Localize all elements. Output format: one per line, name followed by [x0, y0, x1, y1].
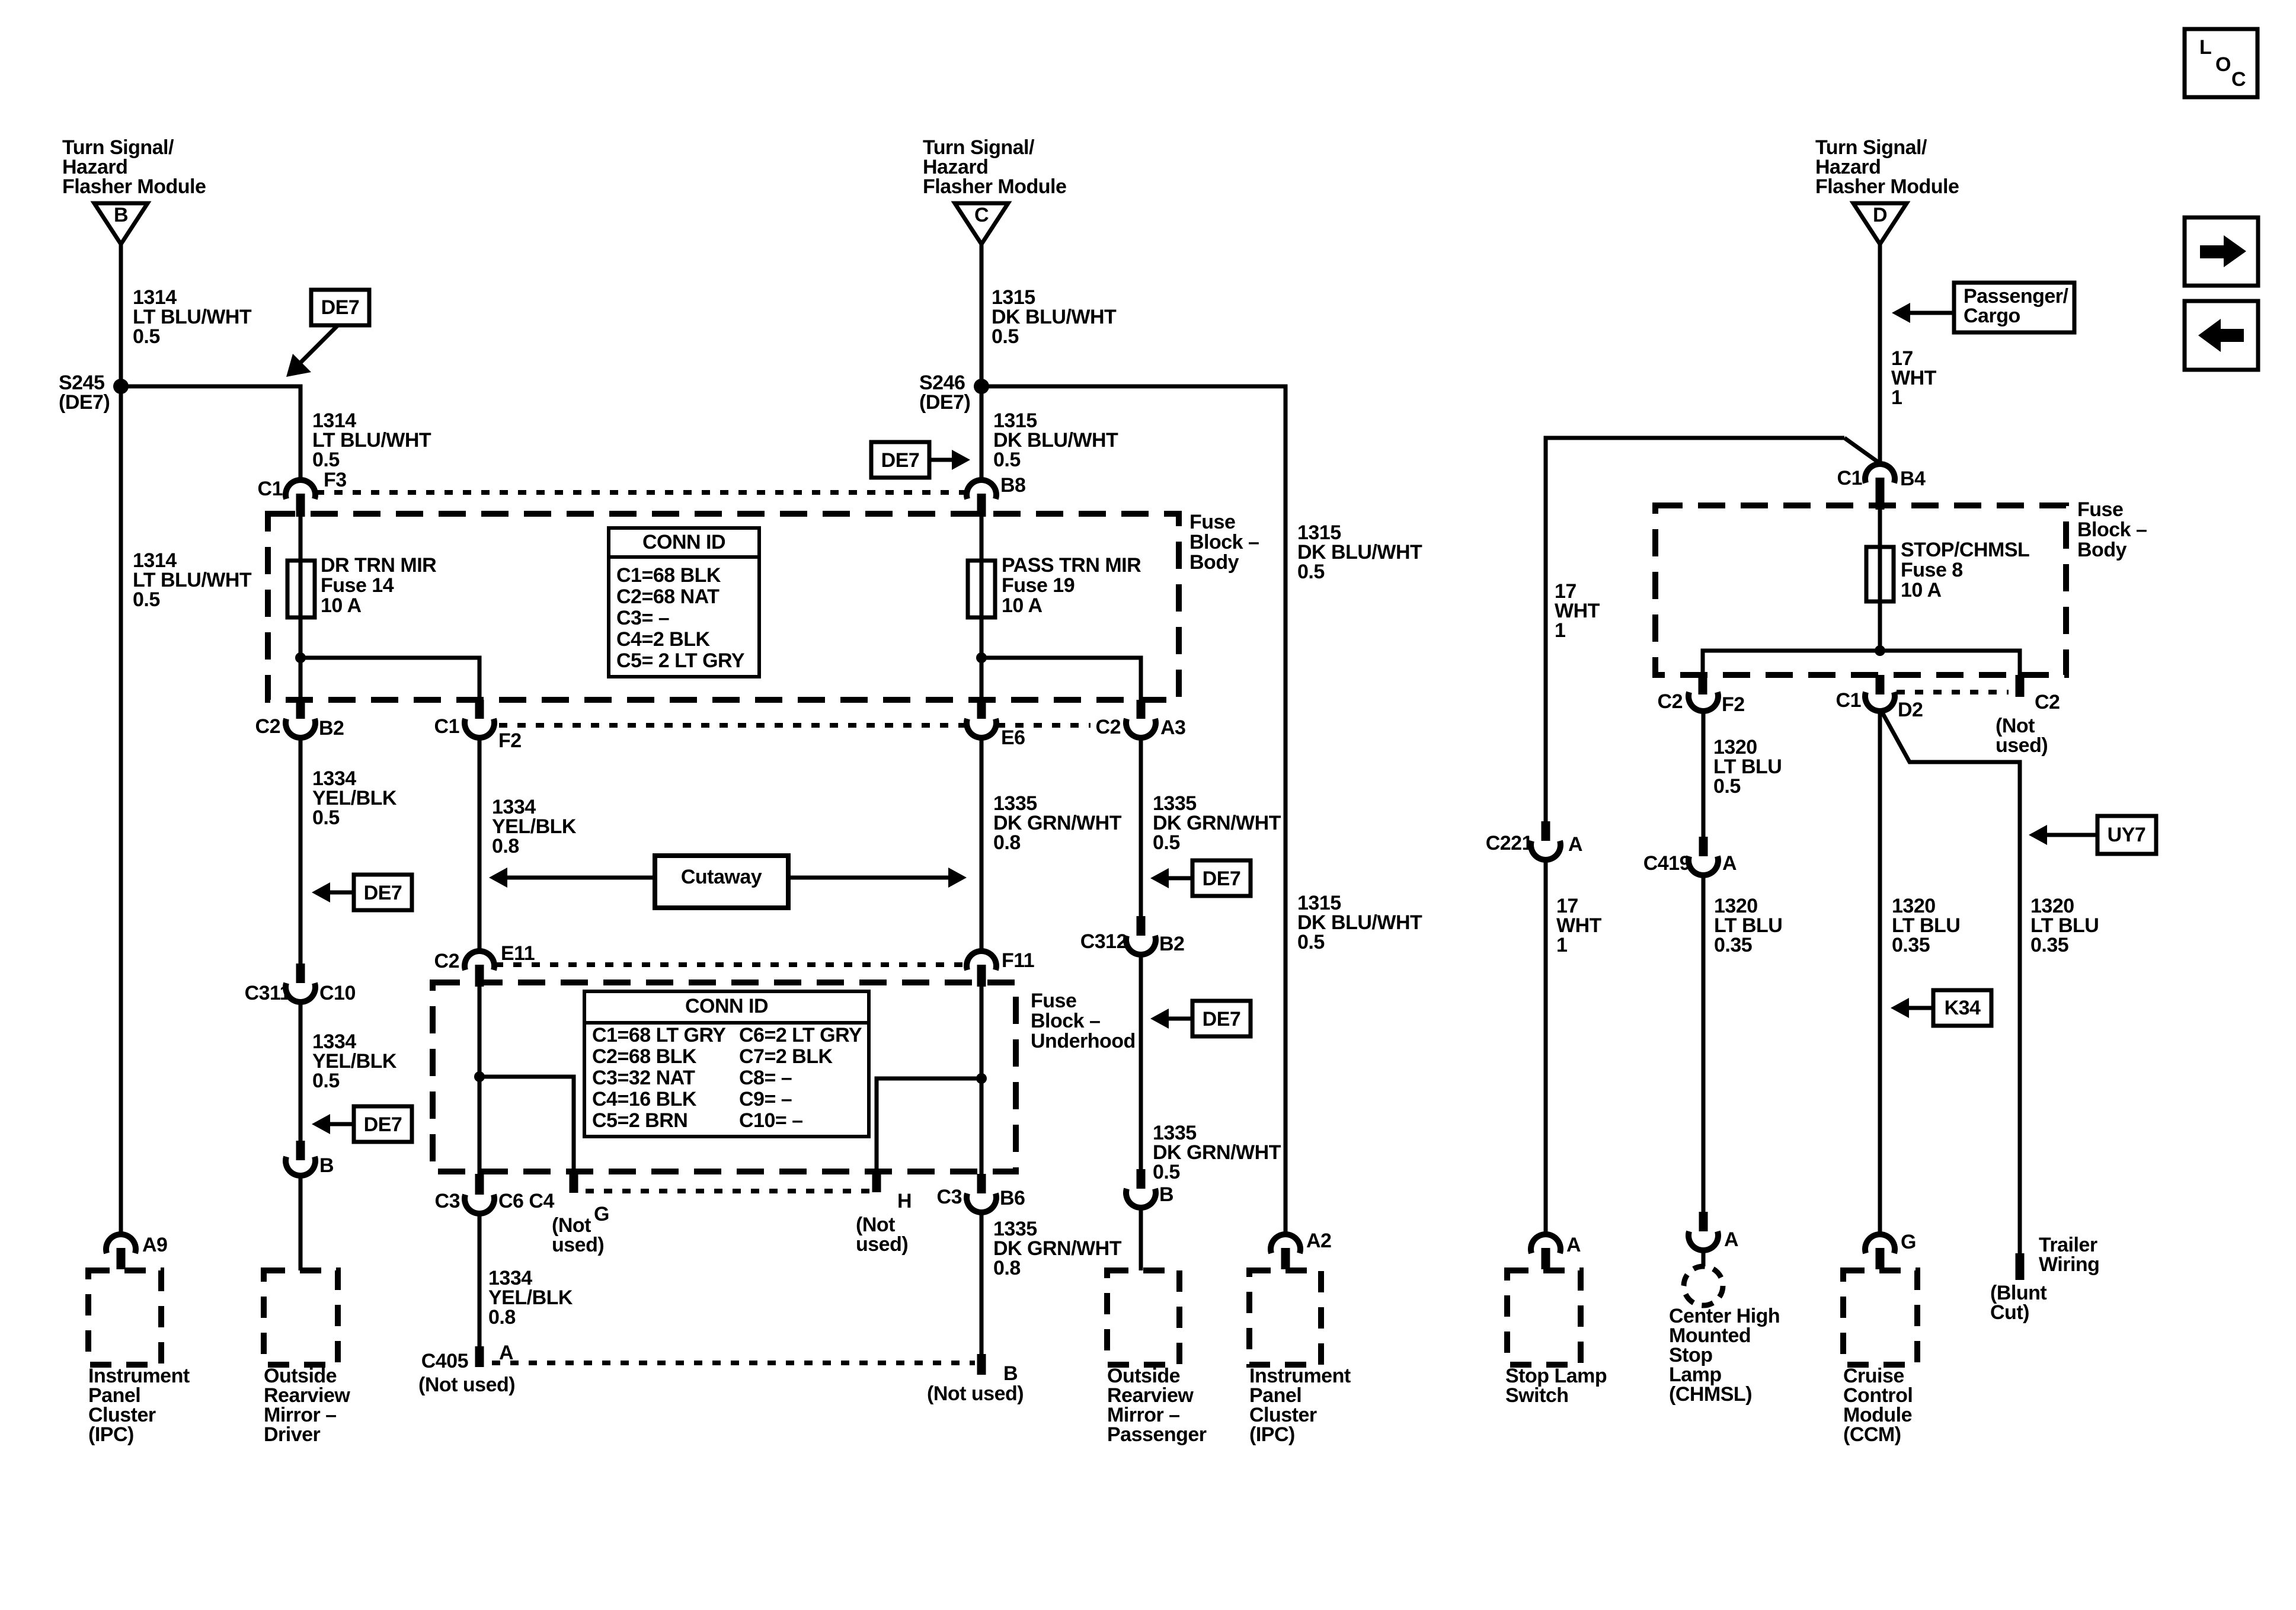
- svg-text:0.8: 0.8: [492, 835, 519, 857]
- wire 1335 E6 to F11: [980, 738, 984, 949]
- svg-text:0.5: 0.5: [312, 806, 340, 829]
- svg-text:A: A: [1568, 833, 1582, 856]
- svg-text:used): used): [856, 1233, 908, 1256]
- callout DE7 (to wire 1335 upper): [1192, 860, 1251, 896]
- connector B (passenger mirror): [1137, 1169, 1146, 1189]
- svg-text:Flasher Module: Flasher Module: [62, 175, 206, 198]
- svg-text:Cargo: Cargo: [1964, 305, 2020, 327]
- stop lamp switch box: [1507, 1270, 1581, 1365]
- LOC legend box: [2185, 29, 2257, 97]
- wire 1335 B6 to B stub: [980, 1213, 984, 1354]
- wire F11 through underhood block: [980, 987, 984, 1184]
- svg-text:G: G: [1901, 1231, 1916, 1253]
- svg-text:G: G: [594, 1203, 609, 1225]
- svg-text:C4=16 BLK: C4=16 BLK: [592, 1088, 697, 1110]
- svg-text:0.35: 0.35: [1892, 934, 1930, 956]
- svg-text:0.35: 0.35: [1714, 934, 1752, 956]
- connector B (driver mirror): [296, 1141, 305, 1160]
- connector C221 / A: [1542, 821, 1550, 841]
- svg-text:A: A: [1722, 852, 1737, 875]
- svg-text:F3: F3: [324, 469, 347, 491]
- svg-text:C312: C312: [1080, 930, 1127, 953]
- svg-text:(IPC): (IPC): [1249, 1423, 1295, 1446]
- connector dotted line (C2 row): [499, 723, 966, 728]
- svg-text:used): used): [552, 1234, 604, 1256]
- instrument panel cluster box (right): [1249, 1270, 1321, 1365]
- svg-text:Underhood: Underhood: [1031, 1030, 1136, 1052]
- svg-text:C2=68 NAT: C2=68 NAT: [616, 585, 720, 608]
- svg-text:L: L: [2199, 36, 2211, 59]
- svg-text:C4=2 BLK: C4=2 BLK: [616, 628, 710, 651]
- svg-text:C3: C3: [435, 1190, 460, 1212]
- svg-text:CONN ID: CONN ID: [642, 531, 725, 553]
- pin H stub (not used): [872, 1172, 881, 1192]
- svg-text:D: D: [1873, 204, 1887, 226]
- junction at fuse 19 output: [976, 652, 987, 663]
- connector C1 / F2: [475, 700, 484, 719]
- svg-text:1: 1: [1555, 619, 1565, 642]
- svg-text:Flasher Module: Flasher Module: [923, 175, 1066, 198]
- wire E11 through underhood block: [478, 987, 482, 1184]
- wire trailer branch from D2: [1881, 710, 2020, 1253]
- svg-text:0.35: 0.35: [2030, 934, 2068, 956]
- connector C1 / F3 at fuse block body: [286, 480, 315, 499]
- wire stop lamp top branch: [1546, 438, 1844, 821]
- svg-text:K34: K34: [1945, 997, 1981, 1019]
- svg-text:Cutaway: Cutaway: [681, 866, 762, 888]
- svg-text:A: A: [1724, 1228, 1738, 1251]
- svg-text:F2: F2: [1722, 693, 1745, 716]
- connector B8 at fuse block body: [967, 480, 996, 499]
- cruise control module box: [1843, 1270, 1917, 1365]
- left turn arrow legend: [2185, 301, 2258, 370]
- wire diagonal into C1/B4: [1844, 438, 1880, 463]
- svg-text:C311: C311: [245, 982, 290, 1004]
- svg-text:E6: E6: [1001, 726, 1025, 749]
- svg-text:C: C: [2231, 68, 2246, 91]
- pin B stub (not used): [977, 1354, 986, 1375]
- pin C2 stub (not used, right block): [2016, 675, 2025, 697]
- connector A2: [1271, 1234, 1300, 1253]
- connector E6: [977, 700, 986, 719]
- module C triangle connector: [955, 203, 1008, 244]
- connector C1 / D2: [1876, 675, 1885, 694]
- svg-text:STOP/CHMSL: STOP/CHMSL: [1901, 539, 2029, 561]
- cutaway box with arrows: [505, 876, 655, 880]
- svg-text:Cut): Cut): [1990, 1301, 2029, 1324]
- svg-text:PASS TRN MIR: PASS TRN MIR: [1002, 554, 1141, 577]
- svg-text:Passenger: Passenger: [1107, 1423, 1207, 1446]
- svg-text:0.8: 0.8: [993, 831, 1021, 854]
- wire fuse 19 branch to A3 pin: [981, 658, 1141, 700]
- callout UY7: [2097, 816, 2156, 854]
- connector dotted line (G/H row): [586, 1189, 871, 1193]
- svg-text:A3: A3: [1160, 716, 1185, 739]
- svg-text:(Not used): (Not used): [927, 1382, 1024, 1405]
- svg-text:(IPC): (IPC): [88, 1423, 134, 1446]
- fuse block - body dashed box (right): [1655, 505, 2066, 675]
- svg-text:Body: Body: [1189, 551, 1239, 574]
- svg-text:B2: B2: [319, 717, 344, 740]
- wire 1314 from module B to splice S245: [119, 244, 123, 386]
- wire branch S246 to IPC A2: [981, 386, 1285, 1234]
- callout Passenger/Cargo: [1954, 283, 2074, 332]
- svg-text:UY7: UY7: [2108, 824, 2146, 846]
- wire fuse 14 branch to F2 pin: [300, 658, 479, 700]
- svg-text:B: B: [1003, 1362, 1018, 1385]
- svg-text:B: B: [1159, 1183, 1173, 1206]
- svg-text:Fuse 19: Fuse 19: [1002, 574, 1075, 597]
- junction underhood (left): [474, 1071, 485, 1082]
- wire 1334 C311 to B: [299, 1003, 303, 1141]
- svg-text:A9: A9: [142, 1234, 167, 1256]
- pin C405 A stub (not used): [475, 1346, 484, 1367]
- svg-text:(CHMSL): (CHMSL): [1669, 1383, 1752, 1406]
- svg-text:F2: F2: [498, 729, 522, 752]
- svg-text:Driver: Driver: [264, 1423, 321, 1446]
- fuse DR TRN MIR Fuse 14 10 A: [299, 517, 303, 658]
- svg-text:10 A: 10 A: [1901, 579, 1942, 601]
- svg-text:0.8: 0.8: [488, 1306, 516, 1329]
- svg-text:0.5: 0.5: [133, 325, 160, 348]
- wire 17 WHT from module D: [1878, 244, 1882, 463]
- svg-text:C: C: [974, 204, 989, 226]
- svg-text:10 A: 10 A: [321, 594, 362, 617]
- svg-text:C2=68 BLK: C2=68 BLK: [592, 1045, 697, 1068]
- svg-text:Fuse: Fuse: [2077, 498, 2123, 521]
- svg-text:C221: C221: [1486, 832, 1533, 854]
- svg-text:C2: C2: [2035, 691, 2060, 713]
- wire 1335 C312 to B: [1139, 955, 1143, 1169]
- svg-text:0.5: 0.5: [1297, 561, 1325, 583]
- svg-text:Block –: Block –: [1189, 531, 1259, 553]
- trailer wiring blunt cut stub: [2016, 1253, 2025, 1280]
- svg-text:1: 1: [1891, 386, 1902, 409]
- svg-text:C2: C2: [1096, 716, 1121, 738]
- svg-text:O: O: [2215, 53, 2231, 76]
- svg-text:Fuse: Fuse: [1189, 511, 1235, 533]
- svg-text:0.5: 0.5: [992, 325, 1019, 348]
- svg-text:C6 C4: C6 C4: [498, 1190, 554, 1212]
- connector C1 / B4: [1865, 464, 1895, 483]
- svg-text:C6=2 LT GRY: C6=2 LT GRY: [739, 1024, 862, 1046]
- svg-text:DE7: DE7: [364, 1113, 402, 1136]
- CONN ID table (fuse block underhood): [584, 991, 869, 1137]
- svg-text:C5=2 BRN: C5=2 BRN: [592, 1109, 687, 1132]
- svg-text:C10= –: C10= –: [739, 1109, 803, 1132]
- connector C312 / B2: [1137, 916, 1146, 936]
- wire 1320 C419 to CHMSL: [1702, 876, 1706, 1212]
- right turn arrow legend: [2185, 217, 2258, 286]
- svg-text:C405: C405: [421, 1350, 468, 1372]
- wire fuse 14 to B2 pin: [299, 658, 303, 700]
- svg-text:C3: C3: [937, 1186, 962, 1208]
- svg-text:Wiring: Wiring: [2039, 1253, 2099, 1276]
- module B triangle connector: [94, 203, 148, 244]
- junction at fuse 8 output: [1875, 645, 1885, 656]
- connector C3 / B6: [977, 1174, 986, 1193]
- svg-text:Body: Body: [2077, 539, 2127, 561]
- center high mounted stop lamp dashed circle: [1684, 1266, 1723, 1305]
- svg-text:DE7: DE7: [1203, 1008, 1241, 1030]
- svg-text:C8= –: C8= –: [739, 1067, 792, 1089]
- svg-text:10 A: 10 A: [1002, 594, 1043, 617]
- svg-text:used): used): [1996, 734, 2048, 757]
- connector A9: [106, 1234, 136, 1253]
- svg-text:Fuse 8: Fuse 8: [1901, 559, 1963, 581]
- connector dotted line (C1 row): [316, 490, 966, 495]
- connector dotted line (D2 row): [1897, 690, 2009, 694]
- module D triangle connector: [1853, 203, 1907, 244]
- svg-text:DR TRN MIR: DR TRN MIR: [321, 554, 436, 577]
- fuse block - body dashed box (left): [268, 514, 1179, 700]
- connector A (stop lamp switch): [1531, 1234, 1560, 1253]
- connector C2 / A3: [1137, 700, 1146, 719]
- wire 1315 from S246 to connector B8: [980, 386, 984, 479]
- wire 1320 F2 to C419: [1702, 712, 1706, 837]
- svg-text:Block –: Block –: [2077, 518, 2147, 541]
- svg-text:DE7: DE7: [321, 296, 360, 319]
- connector F11 at underhood block: [967, 951, 996, 970]
- svg-text:B: B: [319, 1154, 334, 1177]
- callout DE7 (wire 1334 upper): [354, 875, 412, 910]
- svg-text:D2: D2: [1898, 699, 1923, 721]
- svg-text:C9= –: C9= –: [739, 1088, 792, 1110]
- wire fuse 19 to E6 pin: [980, 658, 984, 700]
- svg-text:C1: C1: [258, 478, 283, 500]
- fuse PASS TRN MIR Fuse 19 10 A: [980, 517, 984, 658]
- svg-text:H: H: [897, 1190, 912, 1212]
- svg-text:E11: E11: [501, 942, 535, 965]
- svg-text:F11: F11: [1002, 949, 1034, 972]
- wire 1320 D2 to CCM: [1878, 710, 1882, 1234]
- svg-text:0.5: 0.5: [1153, 1161, 1180, 1183]
- svg-text:C1=68 BLK: C1=68 BLK: [616, 564, 721, 587]
- outside rearview mirror driver box: [264, 1270, 338, 1365]
- wire fuse 8 branch right to C2: [1880, 651, 2020, 675]
- svg-text:C3= –: C3= –: [616, 607, 669, 629]
- wire 1335 A3 to C312: [1139, 738, 1143, 916]
- instrument panel cluster box (left): [88, 1270, 161, 1365]
- callout DE7 (to wire 1335 lower): [1192, 1001, 1251, 1036]
- svg-text:A: A: [1566, 1234, 1581, 1256]
- svg-text:C3=32 NAT: C3=32 NAT: [592, 1067, 695, 1089]
- wire 1334 C6 to C405: [478, 1214, 482, 1346]
- svg-text:0.5: 0.5: [312, 1070, 340, 1092]
- svg-text:0.8: 0.8: [993, 1257, 1021, 1279]
- svg-text:0.5: 0.5: [1297, 931, 1325, 953]
- splice S245: [113, 379, 129, 394]
- connector A (CHMSL): [1699, 1212, 1708, 1231]
- callout DE7 (to connector B8): [871, 442, 929, 478]
- svg-text:Fuse: Fuse: [1031, 990, 1076, 1012]
- svg-text:C10: C10: [319, 982, 356, 1004]
- callout DE7 (wire 1334 lower): [354, 1106, 412, 1142]
- outside rearview mirror passenger box: [1107, 1270, 1179, 1365]
- svg-text:0.5: 0.5: [993, 449, 1021, 471]
- wire 17 WHT C221 to stop lamp switch: [1544, 860, 1548, 1234]
- wire branch to pin H: [877, 1078, 981, 1172]
- connector dotted line (E11 row): [495, 962, 966, 967]
- svg-text:DE7: DE7: [364, 882, 402, 904]
- svg-text:C1: C1: [1837, 467, 1862, 489]
- callout K34: [1933, 990, 1991, 1026]
- svg-text:0.5: 0.5: [1153, 831, 1180, 854]
- pin G stub (not used): [570, 1172, 578, 1193]
- svg-text:B4: B4: [1900, 468, 1926, 490]
- svg-text:B2: B2: [1159, 933, 1184, 955]
- svg-text:C1: C1: [1836, 689, 1861, 712]
- svg-text:B6: B6: [1000, 1187, 1025, 1209]
- svg-text:B: B: [114, 204, 128, 226]
- svg-text:(Not used): (Not used): [418, 1374, 515, 1396]
- connector C3 / C6 C4: [475, 1174, 484, 1195]
- wire branch to pin G: [479, 1077, 574, 1172]
- svg-text:C2: C2: [255, 715, 280, 738]
- wire into CHMSL: [1702, 1251, 1706, 1266]
- svg-text:Block –: Block –: [1031, 1010, 1100, 1032]
- splice S246: [974, 379, 989, 394]
- svg-text:0.5: 0.5: [133, 588, 160, 611]
- svg-text:B8: B8: [1000, 474, 1025, 497]
- svg-text:DE7: DE7: [881, 449, 920, 472]
- connector dotted line (C405 row): [492, 1361, 975, 1365]
- connector G (CCM): [1865, 1234, 1895, 1253]
- connector C2 / F2 (right block): [1699, 675, 1707, 694]
- svg-text:(DE7): (DE7): [919, 391, 970, 414]
- connector C2 / B2: [296, 700, 305, 719]
- connector C311 / C10: [296, 964, 305, 983]
- svg-text:0.5: 0.5: [312, 449, 340, 471]
- svg-text:C5= 2 LT GRY: C5= 2 LT GRY: [616, 649, 745, 672]
- svg-text:(CCM): (CCM): [1843, 1423, 1901, 1446]
- connector C2 / E11 at underhood block: [465, 951, 494, 970]
- junction at fuse 14 output: [295, 652, 306, 663]
- fuse block - underhood dashed box: [433, 982, 1016, 1172]
- svg-text:DE7: DE7: [1203, 868, 1241, 890]
- svg-text:C2: C2: [434, 950, 459, 972]
- wire 1334 F2 to E11: [478, 738, 482, 949]
- junction underhood (right): [976, 1073, 987, 1084]
- callout DE7 (to S245 branch corner): [311, 290, 369, 325]
- svg-text:C419: C419: [1643, 852, 1690, 875]
- wire into driver mirror: [299, 1176, 303, 1270]
- svg-text:Flasher Module: Flasher Module: [1815, 175, 1959, 198]
- svg-text:C2: C2: [1658, 690, 1683, 713]
- svg-text:A2: A2: [1306, 1230, 1331, 1252]
- wire 1315 from module C to splice S246: [980, 244, 984, 386]
- svg-text:1: 1: [1556, 934, 1567, 956]
- wire 1334 B2 to C311: [299, 738, 303, 964]
- svg-text:Fuse 14: Fuse 14: [321, 574, 394, 597]
- svg-text:0.5: 0.5: [1713, 775, 1741, 798]
- wire 1314 from S245 down to A9: [119, 386, 123, 1234]
- fuse STOP/CHMSL Fuse 8 10 A: [1878, 510, 1882, 651]
- wire into passenger mirror: [1139, 1208, 1143, 1270]
- svg-text:C1=68 LT GRY: C1=68 LT GRY: [592, 1024, 726, 1046]
- wire fuse 8 branch left to F2: [1703, 651, 1880, 675]
- svg-text:(DE7): (DE7): [59, 391, 110, 414]
- CONN ID table (fuse block body): [609, 528, 759, 677]
- connector C419 / A: [1699, 837, 1708, 856]
- wire branch S245 to connector C1/F3: [121, 386, 300, 479]
- svg-text:Switch: Switch: [1505, 1384, 1569, 1407]
- svg-text:CONN ID: CONN ID: [685, 995, 768, 1017]
- svg-text:C7=2 BLK: C7=2 BLK: [739, 1045, 833, 1068]
- svg-text:C1: C1: [434, 715, 459, 738]
